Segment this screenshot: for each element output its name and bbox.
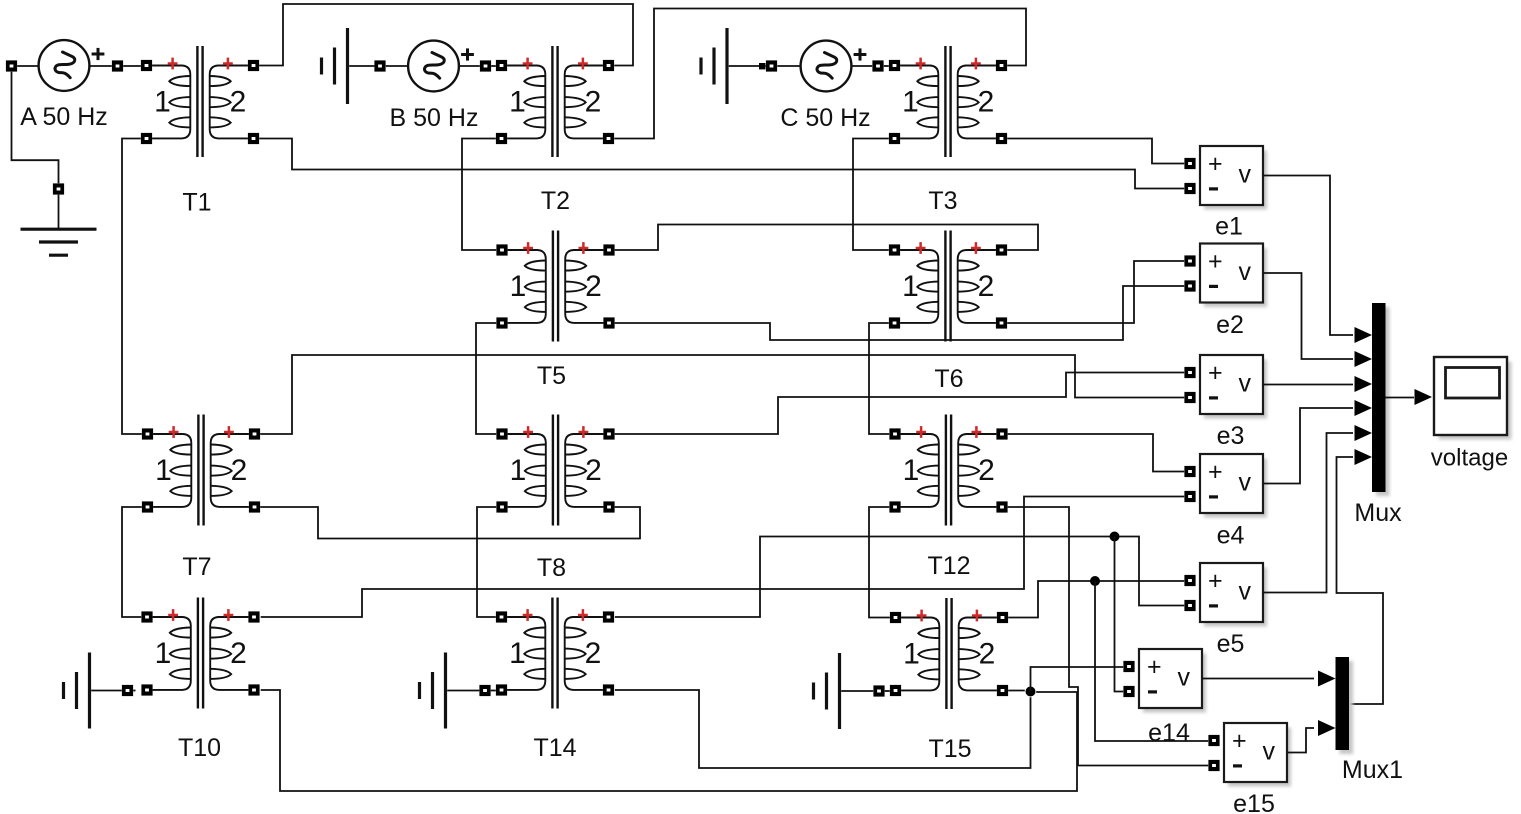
- transformer T7: [142, 415, 260, 582]
- wire C out gap: [884, 65, 889, 67]
- voltmeter e15: [1208, 723, 1291, 814]
- transformer T2: [496, 46, 614, 215]
- wire T6 pri- down to T12 pri+: [869, 323, 889, 434]
- mux arrow in1: [1355, 327, 1373, 343]
- ground T15 (rotated): [814, 653, 840, 729]
- svg-text:Mux1: Mux1: [1342, 756, 1403, 784]
- svg-text:T2: T2: [541, 187, 570, 215]
- wire T8 sec+ to e3 plus: [615, 373, 1184, 435]
- voltmeter e2: [1184, 244, 1267, 340]
- wire T12 sec+ to e4 plus: [1008, 434, 1184, 472]
- wire T7 sec- to T8 sec-: [260, 507, 640, 539]
- transformer T6: [889, 231, 1007, 394]
- mux arrow in6: [1355, 449, 1373, 465]
- ground C (rotated): [701, 28, 727, 104]
- port C in: [766, 60, 777, 71]
- wire T15 gnd gap: [885, 690, 890, 692]
- wire T14 gnd gap: [491, 690, 496, 692]
- svg-text:e14: e14: [1148, 719, 1190, 747]
- wire ground C stub: [729, 65, 766, 67]
- wire e15 out to Mux1 in2: [1288, 728, 1314, 753]
- wire e5 out to Mux in5: [1263, 433, 1353, 593]
- wire B out gap: [491, 65, 496, 67]
- svg-text:T7: T7: [182, 553, 211, 581]
- wire T2 pri- down to T5 pri+: [462, 139, 496, 251]
- wire ground B stub: [349, 65, 374, 67]
- wire e14 out to Mux1 in1: [1202, 678, 1314, 680]
- wire T1 sec- to e1 minus: [259, 139, 1184, 189]
- port B out: [480, 60, 491, 71]
- svg-text:T10: T10: [178, 734, 221, 762]
- wire C left lead: [777, 65, 801, 67]
- svg-text:T5: T5: [537, 362, 566, 390]
- svg-text:T8: T8: [537, 554, 566, 582]
- wire ground T15 stub: [841, 690, 873, 692]
- port ground T14: [479, 685, 490, 696]
- port ground T10: [122, 685, 133, 696]
- wire ground A stem: [58, 195, 60, 228]
- wire T12 pri- down to T15 pri+: [869, 507, 890, 618]
- svg-text:A 50 Hz: A 50 Hz: [20, 103, 108, 131]
- wire T5 pri- down to T8 pri+: [476, 323, 496, 434]
- mux arrow in4: [1355, 400, 1373, 416]
- mux arrow in2: [1355, 351, 1373, 367]
- ground B (rotated): [322, 28, 348, 104]
- svg-text:e2: e2: [1216, 311, 1244, 339]
- wire T1 sec+ to T2 sec+ (top): [259, 4, 633, 66]
- svg-text:e3: e3: [1217, 422, 1245, 450]
- junction dot n1: [1110, 532, 1120, 542]
- port C out: [872, 60, 883, 71]
- wire T2 sec- to T3 sec+ (top): [614, 9, 1026, 139]
- svg-text:T1: T1: [182, 189, 211, 217]
- wire B left lead: [386, 65, 408, 67]
- port A right: [112, 60, 123, 71]
- port ground C small: [759, 63, 765, 69]
- svg-text:T6: T6: [934, 365, 963, 393]
- mux1 arrow in1: [1318, 671, 1336, 687]
- AC source B 50 Hz: [390, 41, 479, 132]
- voltmeter e3: [1184, 355, 1267, 450]
- voltmeter e4: [1184, 454, 1267, 550]
- voltmeter e5: [1184, 563, 1267, 658]
- mux arrow in5: [1355, 425, 1373, 441]
- AC source C 50 Hz: [780, 41, 870, 132]
- wire T10 gnd gap: [133, 690, 135, 692]
- wire T3 pri- down to T6 pri+: [853, 139, 889, 251]
- svg-text:Mux: Mux: [1354, 499, 1402, 527]
- arrowhead scope input: [1415, 389, 1433, 405]
- transformer T1: [141, 46, 259, 217]
- svg-text:B 50 Hz: B 50 Hz: [390, 104, 479, 132]
- wire T5 sec+ to T6 sec+: [615, 225, 1038, 251]
- mux Mux: [1354, 303, 1402, 527]
- wire T7 pri- down to T10 pri+: [122, 507, 142, 617]
- transformer T14: [496, 598, 614, 763]
- svg-text:e5: e5: [1217, 630, 1245, 658]
- wire A to T1: [123, 65, 141, 67]
- wire T12 sec- to e15 minus: [1008, 507, 1208, 766]
- wire T8 pri- down to T14 pri+: [477, 507, 496, 617]
- svg-text:T15: T15: [928, 735, 971, 763]
- svg-text:e1: e1: [1215, 213, 1243, 241]
- wire n1 down to e14 minus: [1115, 537, 1124, 692]
- ground T10 (rotated): [64, 653, 90, 729]
- voltmeter e14: [1123, 649, 1206, 747]
- transformer T5: [496, 231, 614, 391]
- wire n3 up to e14 plus: [1031, 667, 1124, 692]
- junction dot n3: [1026, 687, 1036, 697]
- wire T1 pri- down to T7 pri+: [122, 139, 142, 435]
- mux1 arrow in2: [1318, 720, 1336, 736]
- port ground B: [374, 60, 385, 71]
- AC source A 50 Hz: [20, 40, 108, 131]
- wire Mux1 out to Mux in6: [1337, 457, 1384, 704]
- wire ground T10 stub: [91, 690, 122, 692]
- wire T15 sec+ to e5 plus: [1008, 581, 1184, 618]
- wire T14 sec+ tap / e5 minus run: [615, 537, 1184, 618]
- wire T10 sec- to bottom bus: [261, 690, 1077, 791]
- wire C right lead: [852, 65, 873, 67]
- svg-text:T3: T3: [928, 187, 957, 215]
- svg-text:T12: T12: [927, 552, 970, 580]
- port A left: [6, 60, 17, 71]
- wire T7 sec+ to e3 minus: [260, 355, 1184, 434]
- transformer T10: [141, 598, 259, 763]
- voltmeter e1: [1184, 146, 1267, 241]
- wire T14 sec- to node: [615, 690, 1031, 768]
- svg-text:C 50 Hz: C 50 Hz: [780, 104, 870, 132]
- wire T3 sec- to e1 plus: [1007, 139, 1184, 164]
- wire n2 down to e15 plus: [1095, 581, 1208, 741]
- wire B right lead: [459, 65, 480, 67]
- wire A neutral down: [12, 72, 59, 184]
- scope voltage: [1431, 357, 1512, 472]
- wire A left lead: [17, 65, 38, 67]
- wire ground T14 stub: [447, 690, 479, 692]
- transformer T12: [889, 415, 1007, 581]
- mux Mux1: [1336, 657, 1404, 784]
- transformer T8: [496, 415, 614, 583]
- wire e4 out to Mux in4: [1263, 408, 1353, 484]
- port ground A: [53, 183, 64, 194]
- junction dot n2: [1090, 576, 1100, 586]
- wire e2 out to Mux in2: [1263, 273, 1353, 359]
- mux arrow in3: [1355, 376, 1373, 392]
- wire e1 out to Mux in1: [1263, 176, 1353, 336]
- ground A: [21, 229, 97, 255]
- transformer T15: [890, 598, 1008, 763]
- svg-text:e15: e15: [1233, 790, 1275, 814]
- transformer T3: [889, 46, 1007, 215]
- ground T14 (rotated): [420, 653, 446, 729]
- svg-text:voltage: voltage: [1431, 445, 1508, 472]
- svg-text:e4: e4: [1217, 522, 1245, 550]
- wire A right lead: [90, 65, 112, 67]
- wire T10 sec+ to e4 minus bus: [261, 497, 1184, 618]
- wire T5 sec- to e2 minus: [615, 286, 1184, 340]
- wire e3 out to Mux in3: [1263, 384, 1353, 386]
- svg-text:T14: T14: [533, 734, 576, 762]
- wire Mux out to scope: [1386, 397, 1415, 399]
- port ground T15: [873, 685, 884, 696]
- wire T6 sec- to e2 plus: [1007, 261, 1184, 323]
- wire T15 sec- to node: [1008, 690, 1025, 692]
